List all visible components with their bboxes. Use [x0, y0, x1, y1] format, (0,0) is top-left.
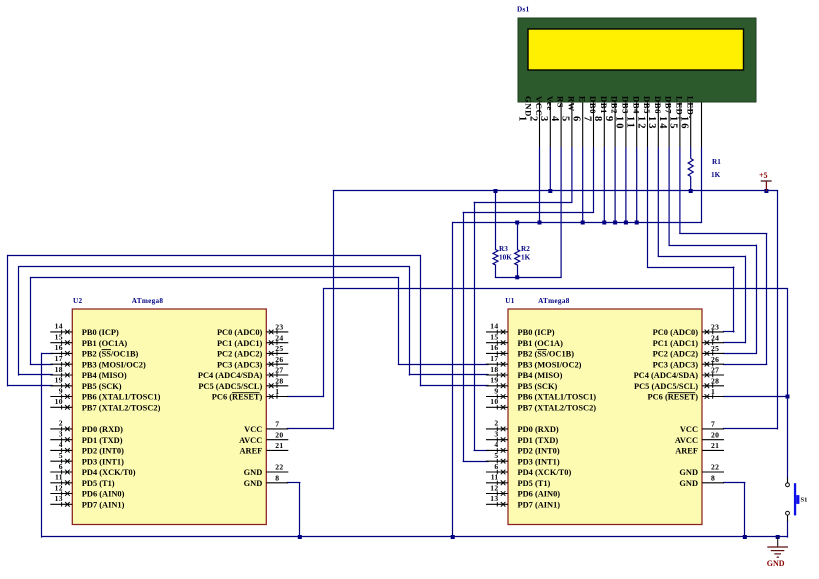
svg-text:24: 24 [711, 333, 719, 342]
svg-text:PB2 (SS/OC1B): PB2 (SS/OC1B) [82, 350, 139, 359]
svg-text:PB0 (ICP): PB0 (ICP) [518, 328, 555, 337]
svg-text:16: 16 [679, 116, 690, 131]
svg-text:PD1 (TXD): PD1 (TXD) [518, 436, 559, 445]
pin U1 PD0 (pin 2) [486, 419, 559, 434]
svg-text:PC1 (ADC1): PC1 (ADC1) [217, 339, 263, 348]
svg-text:15: 15 [55, 333, 63, 342]
wire net RESET [323, 288, 788, 290]
pin wire LCD pin 5 [582, 102, 584, 147]
svg-text:DB0: DB0 [588, 96, 598, 114]
svg-text:PC0 (ADC0): PC0 (ADC0) [217, 328, 263, 337]
svg-text:RS: RS [556, 96, 566, 108]
svg-text:5: 5 [494, 451, 498, 460]
svg-text:2: 2 [494, 419, 498, 428]
wire net Vee bottom (R3-R2-LCD pin3) [495, 277, 562, 279]
svg-text:PB6 (XTAL1/TOSC1): PB6 (XTAL1/TOSC1) [518, 393, 597, 402]
junction U2 GND8/rail [298, 535, 302, 539]
junction LCD GND pin1 [538, 221, 542, 225]
pin U1 PC0 (pin 23) [653, 323, 724, 338]
wire wire U2 PB2 stub ext [41, 353, 53, 355]
svg-text:PC5 (ADC5/SCL): PC5 (ADC5/SCL) [198, 382, 262, 391]
svg-text:PB5 (SCK): PB5 (SCK) [518, 382, 558, 391]
svg-text:23: 23 [711, 323, 719, 332]
pin U1 PB3 (pin 17) [486, 354, 582, 369]
svg-text:DB6: DB6 [653, 96, 663, 114]
svg-text:20: 20 [711, 430, 719, 439]
pin wire LCD pin 11 [647, 102, 649, 147]
pin wire LCD pin 6 [593, 102, 595, 147]
wire net PB3 (U2-U1) [30, 277, 399, 279]
pin U1 PB7 (pin 10) [486, 397, 596, 412]
wire wire R3 bottom [495, 264, 497, 278]
pin U2 GND (pin 8) [244, 473, 289, 488]
svg-text:11: 11 [491, 473, 499, 482]
svg-text:9: 9 [603, 116, 614, 123]
pin U2 PB1 (pin 15) [50, 333, 127, 348]
wire wire U1 PC1 [723, 342, 746, 344]
wire wire U1 PD2 [474, 450, 489, 452]
pin wire LCD pin 4 [571, 102, 573, 147]
pin U2 PD3 (pin 5) [50, 451, 124, 466]
svg-text:14: 14 [490, 322, 498, 331]
pin U1 PD4 (pin 6) [486, 462, 571, 477]
pin U1 PC5 (pin 28) [634, 376, 724, 391]
wire net +5 rail [333, 190, 778, 192]
wire wire U1 VCC vertical to +5 [777, 190, 779, 429]
svg-text:RW: RW [567, 96, 577, 112]
pin U1 PC1 (pin 24) [653, 333, 724, 348]
svg-text:28: 28 [275, 376, 283, 385]
svg-text:26: 26 [711, 355, 719, 364]
svg-text:PC3 (ADC3): PC3 (ADC3) [653, 360, 699, 369]
svg-text:R3: R3 [499, 245, 508, 253]
push button S1 [786, 478, 808, 521]
svg-text:PD3 (INT1): PD3 (INT1) [518, 457, 560, 466]
pin U1 PD2 (pin 4) [486, 440, 560, 455]
wire net DB6 to U1 PC2 [669, 245, 757, 247]
svg-text:12: 12 [55, 483, 63, 492]
svg-text:24: 24 [275, 333, 283, 342]
svg-text:PC4 (ADC4/SDA): PC4 (ADC4/SDA) [634, 371, 699, 380]
wire wire U2 RESET vertical [323, 288, 325, 397]
wire wire U1 PB3 [398, 364, 489, 366]
wire net PB4 vertical left [18, 266, 20, 375]
svg-text:PD0 (RXD): PD0 (RXD) [82, 425, 123, 434]
wire wire U1 RESET [723, 396, 788, 398]
pin wire LCD pin 13 [668, 102, 670, 147]
wire wire U2 PB5 stub ext [7, 385, 53, 387]
junction R2/GND [515, 221, 519, 225]
wire wire U1 PC0 [723, 331, 735, 333]
svg-text:PC6 (RESET): PC6 (RESET) [212, 393, 263, 402]
svg-text:PB3 (MOSI/OC2): PB3 (MOSI/OC2) [82, 360, 146, 369]
svg-text:AVCC: AVCC [239, 436, 262, 445]
svg-text:10: 10 [614, 116, 625, 131]
wire wire U2 RESET [287, 396, 324, 398]
pin wire LCD pin 8 [614, 102, 616, 147]
svg-text:27: 27 [275, 366, 283, 375]
svg-text:ATmega8: ATmega8 [538, 297, 570, 305]
wire wire U1 GND pin8 [723, 482, 746, 484]
pin U2 PD7 (pin 13) [50, 494, 124, 509]
pin wire LCD pin 2 [549, 102, 551, 147]
svg-text:PB1 (OC1A): PB1 (OC1A) [518, 339, 564, 348]
wire net GND rail2 drop [452, 222, 454, 538]
wire net DB7 to U1 PC3 [679, 233, 767, 235]
svg-text:PB7 (XTAL2/TOSC2): PB7 (XTAL2/TOSC2) [518, 403, 597, 412]
junction R3/+5 [494, 189, 498, 193]
svg-text:1K: 1K [711, 171, 721, 179]
svg-text:PD5 (T1): PD5 (T1) [82, 479, 115, 488]
svg-text:11: 11 [55, 473, 63, 482]
svg-text:PC1 (ADC1): PC1 (ADC1) [653, 339, 699, 348]
resistor R2 [515, 245, 531, 265]
svg-text:7: 7 [581, 116, 592, 123]
junction LCD DB3 [635, 221, 639, 225]
pin U2 PC2 (pin 25) [217, 344, 288, 359]
junction LCD DB0 [602, 221, 606, 225]
svg-text:PD1 (TXD): PD1 (TXD) [82, 436, 123, 445]
wire wire U2 GND pin8 vertical [299, 482, 301, 537]
wire net DB4 to U1 PC0 [647, 267, 735, 269]
svg-text:13: 13 [646, 116, 657, 131]
wire net DB5 riser [745, 256, 747, 344]
pin U2 PC3 (pin 26) [217, 355, 288, 370]
pin U2 PB4 (pin 18) [50, 365, 127, 380]
wire wire U2 PB3 stub ext [30, 364, 53, 366]
junction LCD RW [581, 221, 585, 225]
svg-text:PB6 (XTAL1/TOSC1): PB6 (XTAL1/TOSC1) [82, 393, 161, 402]
pin wire LCD pin 9 [625, 102, 627, 147]
svg-text:25: 25 [275, 344, 283, 353]
svg-text:25: 25 [711, 344, 719, 353]
svg-text:S1: S1 [801, 497, 808, 504]
junction LCD DB1 [613, 221, 617, 225]
svg-text:DB5: DB5 [642, 96, 652, 114]
pin wire LCD pin 10 [636, 102, 638, 147]
pin wire LCD pin 1 [539, 102, 541, 147]
pin U2 PC0 (pin 23) [217, 323, 288, 338]
svg-text:AREF: AREF [239, 447, 262, 456]
pin U1 PB1 (pin 15) [486, 333, 563, 348]
wire net GND rail under LCD [452, 222, 702, 224]
wire net PB5 (U2-U1) [7, 255, 421, 257]
svg-text:19: 19 [490, 376, 498, 385]
wire net DB6 riser [756, 245, 758, 354]
svg-text:7: 7 [711, 420, 715, 429]
svg-text:22: 22 [711, 463, 719, 472]
svg-text:13: 13 [55, 494, 63, 503]
svg-text:21: 21 [275, 441, 283, 450]
svg-text:3: 3 [494, 430, 498, 439]
svg-text:PC0 (ADC0): PC0 (ADC0) [653, 328, 699, 337]
pin U1 PD1 (pin 3) [486, 430, 558, 445]
resistor R3 [493, 245, 512, 265]
svg-text:AVCC: AVCC [675, 436, 698, 445]
wire net PB2/SS to GND vertical [41, 353, 43, 538]
svg-text:11: 11 [625, 116, 636, 130]
svg-text:PD4 (XCK/T0): PD4 (XCK/T0) [82, 468, 136, 477]
svg-text:GND: GND [767, 559, 785, 568]
svg-text:Vee: Vee [545, 96, 555, 111]
wire net DB4 riser [733, 267, 735, 333]
svg-text:PD6 (AIN0): PD6 (AIN0) [518, 490, 561, 499]
svg-text:PD3 (INT1): PD3 (INT1) [82, 457, 124, 466]
pin U1 AREF (pin 21) [675, 441, 724, 456]
pin U1 PB0 (pin 14) [486, 322, 555, 337]
svg-text:PD2 (INT0): PD2 (INT0) [82, 447, 124, 456]
svg-text:4: 4 [59, 440, 63, 449]
pin U2 PD0 (pin 2) [50, 419, 123, 434]
svg-text:PB2 (SS/OC1B): PB2 (SS/OC1B) [518, 350, 575, 359]
pin U2 AREF (pin 21) [239, 441, 288, 456]
svg-text:DB7: DB7 [664, 96, 674, 114]
junction R2 bottom/Vee [515, 275, 519, 279]
svg-text:PD5 (T1): PD5 (T1) [518, 479, 551, 488]
wire wire U1 VCC [723, 428, 778, 430]
svg-text:E: E [577, 96, 587, 102]
pin U2 PC6 (pin 1) [212, 387, 289, 402]
pin U1 PB5 (pin 19) [486, 376, 557, 391]
wire wire U1 GND pin8 vertical [744, 482, 746, 537]
wire net PB5 vertical left [7, 255, 9, 387]
svg-text:PD4 (XCK/T0): PD4 (XCK/T0) [518, 468, 572, 477]
svg-text:13: 13 [490, 494, 498, 503]
pin U2 PB7 (pin 10) [50, 397, 160, 412]
pin U1 VCC (pin 7) [680, 420, 724, 435]
svg-text:1: 1 [275, 387, 279, 396]
pin U2 PD4 (pin 6) [50, 462, 135, 477]
wire wire U2 GND pin8 [287, 482, 301, 484]
pin U1 PB6 (pin 9) [486, 386, 596, 401]
svg-text:R2: R2 [521, 245, 530, 253]
pin U2 PB3 (pin 17) [50, 354, 146, 369]
junction GND terminal/rail [776, 535, 780, 539]
svg-text:6: 6 [571, 116, 582, 123]
svg-text:DB3: DB3 [621, 96, 631, 114]
pin U1 PD3 (pin 5) [486, 451, 560, 466]
wire wire button S1 bottom to GND [787, 520, 789, 537]
wire wire U2 VCC vertical to +5 [333, 190, 335, 429]
pin U1 PB2 (pin 16) [486, 343, 574, 358]
junction +5 terminal [764, 189, 768, 193]
svg-text:DB2: DB2 [610, 96, 620, 114]
wire net GND bottom rail [41, 536, 788, 538]
pin U1 GND (pin 8) [679, 473, 724, 488]
LCD display Ds1 [517, 6, 756, 103]
svg-text:18: 18 [55, 365, 63, 374]
svg-text:PB5 (SCK): PB5 (SCK) [82, 382, 122, 391]
wire wire U2 VCC [287, 428, 334, 430]
svg-text:28: 28 [711, 376, 719, 385]
svg-text:PD2 (INT0): PD2 (INT0) [518, 447, 560, 456]
pin U2 VCC (pin 7) [244, 420, 288, 435]
svg-text:6: 6 [494, 462, 498, 471]
pin U2 PD6 (pin 12) [50, 483, 124, 498]
svg-text:9: 9 [59, 386, 63, 395]
junction LCD DB2 [624, 221, 628, 225]
svg-text:GND: GND [679, 468, 698, 477]
svg-text:R1: R1 [712, 158, 721, 166]
microcontroller U2 ATmega8 [72, 297, 266, 525]
svg-text:14: 14 [657, 116, 668, 131]
pin U1 PD7 (pin 13) [486, 494, 560, 509]
pin wire LCD pin 7 [603, 102, 605, 147]
svg-text:18: 18 [490, 365, 498, 374]
svg-text:PD7 (AIN1): PD7 (AIN1) [518, 500, 561, 509]
svg-text:5: 5 [560, 116, 571, 123]
svg-text:5: 5 [59, 451, 63, 460]
svg-text:PD0 (RXD): PD0 (RXD) [518, 425, 559, 434]
pin U2 PB5 (pin 19) [50, 376, 121, 391]
pin U2 PB2 (pin 16) [50, 343, 138, 358]
wire wire U1 PC3 [723, 364, 767, 366]
pin U1 AVCC (pin 20) [675, 430, 724, 445]
svg-text:21: 21 [711, 441, 719, 450]
svg-text:U1: U1 [505, 297, 514, 305]
junction LCD VCC/+5 [548, 189, 552, 193]
svg-text:PB3 (MOSI/OC2): PB3 (MOSI/OC2) [518, 360, 582, 369]
svg-text:U2: U2 [73, 297, 82, 305]
svg-text:10K: 10K [499, 254, 512, 262]
svg-text:15: 15 [668, 116, 679, 131]
pin U2 AVCC (pin 20) [239, 430, 288, 445]
junction U1 GND8/rail [743, 535, 747, 539]
svg-text:15: 15 [490, 333, 498, 342]
svg-text:Ds1: Ds1 [517, 6, 530, 14]
svg-text:19: 19 [55, 376, 63, 385]
svg-text:GND: GND [523, 96, 533, 117]
svg-text:16: 16 [55, 343, 63, 352]
wire net PB5 vertical right [420, 255, 422, 387]
pin U1 PC4 (pin 27) [634, 366, 724, 381]
svg-text:2: 2 [59, 419, 63, 428]
svg-text:GND: GND [244, 468, 263, 477]
svg-text:1: 1 [517, 116, 528, 123]
pin wire LCD pin 3 [560, 102, 562, 147]
svg-text:PC2 (ADC2): PC2 (ADC2) [653, 350, 699, 359]
pin U2 PC4 (pin 27) [198, 366, 288, 381]
svg-text:23: 23 [275, 323, 283, 332]
wire wire R2 bottom [517, 264, 519, 278]
svg-text:PC5 (ADC5/SCL): PC5 (ADC5/SCL) [634, 382, 698, 391]
wire net PB3 vertical left [30, 277, 32, 365]
svg-text:10: 10 [490, 397, 498, 406]
wire wire U2 PB4 stub ext [18, 374, 53, 376]
svg-text:16: 16 [490, 343, 498, 352]
pin U2 PD1 (pin 3) [50, 430, 122, 445]
pin U2 PD5 (pin 11) [50, 473, 115, 488]
svg-text:1: 1 [711, 387, 715, 396]
svg-text:4: 4 [494, 440, 498, 449]
svg-text:7: 7 [275, 420, 279, 429]
svg-text:PB7 (XTAL2/TOSC2): PB7 (XTAL2/TOSC2) [82, 403, 161, 412]
wire net RS (LCD pin4 to U1 PD2) [474, 202, 573, 204]
pin wire LCD pin 16 [701, 102, 703, 147]
microcontroller U1 ATmega8 [505, 297, 702, 525]
resistor R1 [688, 158, 721, 179]
svg-text:8: 8 [592, 116, 603, 123]
svg-text:4: 4 [549, 116, 560, 123]
wire net PB4 vertical right [409, 266, 411, 375]
svg-text:27: 27 [711, 366, 719, 375]
svg-text:PC6 (RESET): PC6 (RESET) [648, 393, 699, 402]
svg-text:PB4 (MISO): PB4 (MISO) [518, 371, 563, 380]
svg-text:8: 8 [711, 473, 715, 482]
svg-text:DB1: DB1 [599, 96, 609, 114]
svg-text:VCC: VCC [534, 96, 544, 116]
svg-text:PB1 (OC1A): PB1 (OC1A) [82, 339, 128, 348]
ground symbol GND [767, 537, 788, 568]
svg-text:+5: +5 [759, 171, 768, 180]
wire net DB7 riser [766, 233, 768, 364]
svg-text:VCC: VCC [680, 425, 698, 434]
svg-text:17: 17 [490, 354, 498, 363]
svg-text:AREF: AREF [675, 447, 698, 456]
pin U2 PC1 (pin 24) [217, 333, 288, 348]
wire net DB5 to U1 PC1 [658, 256, 746, 258]
pin U1 PC2 (pin 25) [653, 344, 724, 359]
svg-text:22: 22 [275, 463, 283, 472]
svg-text:14: 14 [55, 322, 63, 331]
pin U1 GND (pin 22) [679, 463, 724, 478]
svg-text:PC4 (ADC4/SDA): PC4 (ADC4/SDA) [198, 371, 263, 380]
svg-text:PD6 (AIN0): PD6 (AIN0) [82, 490, 125, 499]
pin wire LCD pin 12 [657, 102, 659, 147]
svg-text:2: 2 [527, 116, 538, 123]
junction RESET/button [786, 395, 790, 399]
svg-text:9: 9 [494, 386, 498, 395]
junction R1/+5 [689, 189, 693, 193]
svg-text:PC2 (ADC2): PC2 (ADC2) [217, 350, 263, 359]
wire net E (LCD pin6 to U1 PD3) [463, 212, 594, 214]
pin U2 PB0 (pin 14) [50, 322, 119, 337]
junction rail2 drop/rail [451, 535, 455, 539]
pin U1 PC3 (pin 26) [653, 355, 724, 370]
wire wire R3 top to +5 rail [495, 190, 497, 250]
wire wire U1 PD3 [463, 461, 489, 463]
wire net RS vertical [474, 202, 476, 451]
pin U1 PB4 (pin 18) [486, 365, 563, 380]
svg-text:3: 3 [538, 116, 549, 123]
pin U1 PD6 (pin 12) [486, 483, 560, 498]
svg-text:GND: GND [244, 479, 263, 488]
pin U1 PD5 (pin 11) [486, 473, 551, 488]
svg-text:3: 3 [59, 430, 63, 439]
svg-text:ATmega8: ATmega8 [132, 297, 164, 305]
svg-text:DB4: DB4 [631, 96, 641, 114]
wire wire U1 PB5 [420, 385, 489, 387]
svg-text:8: 8 [275, 473, 279, 482]
svg-text:PD7 (AIN1): PD7 (AIN1) [82, 500, 125, 509]
svg-text:VCC: VCC [244, 425, 262, 434]
wire net PB3 vertical right [398, 277, 400, 365]
wire net E vertical [463, 212, 465, 462]
svg-text:12: 12 [635, 116, 646, 131]
power terminal +5 [759, 171, 772, 191]
pin U2 PB6 (pin 9) [50, 386, 160, 401]
pin wire LCD pin 15 [690, 102, 692, 147]
pin U2 PC5 (pin 28) [198, 376, 288, 391]
wire wire RESET to button S1 top [787, 288, 789, 478]
wire wire R2 top to GND rail [517, 222, 519, 250]
svg-text:1K: 1K [521, 254, 531, 262]
svg-text:PB0 (ICP): PB0 (ICP) [82, 328, 119, 337]
pin U1 PC6 (pin 1) [648, 387, 725, 402]
svg-text:20: 20 [275, 430, 283, 439]
svg-text:12: 12 [490, 483, 498, 492]
svg-text:PC3 (ADC3): PC3 (ADC3) [217, 360, 263, 369]
